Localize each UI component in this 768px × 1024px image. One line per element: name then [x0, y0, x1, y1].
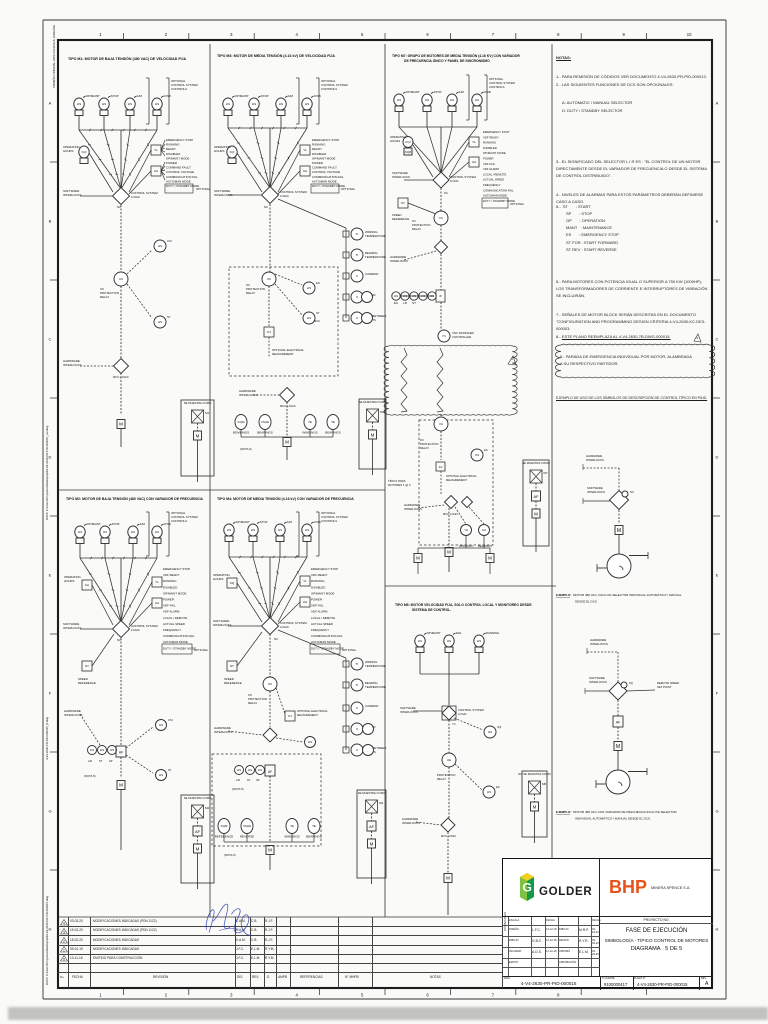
svg-text:TE: TE: [308, 420, 312, 424]
svg-text:HS: HS: [78, 530, 82, 534]
svg-text:STOP: STOP: [260, 520, 268, 524]
svg-text:A/M: A/M: [459, 90, 465, 94]
svg-text:TIPO M2: MOTOR DE BAJA TENSIÓN: TIPO M2: MOTOR DE BAJA TENSIÓN (480 VAC)…: [66, 496, 203, 501]
svg-text:EJEMPLO:: EJEMPLO:: [556, 593, 571, 597]
svg-text:TIPO M3: MOTOR DE MEDIA TENSIÓ: TIPO M3: MOTOR DE MEDIA TENSIÓN (4.16 kV…: [217, 53, 335, 58]
svg-text:AUTO/MAN MODE: AUTO/MAN MODE: [312, 179, 337, 183]
svg-text:INTERLOCKS: INTERLOCKS: [63, 626, 82, 630]
svg-text:9: 9: [623, 32, 626, 37]
svg-text:OP/MAINT MODE: OP/MAINT MODE: [311, 591, 334, 595]
svg-text:ST: ST: [168, 768, 172, 772]
svg-text:H: H: [49, 927, 52, 932]
svg-text:AUTO/MAN MODE: AUTO/MAN MODE: [163, 640, 188, 644]
svg-text:RUNNING: RUNNING: [312, 143, 326, 147]
svg-text:M2: M2: [205, 806, 209, 810]
svg-text:HS: HS: [90, 748, 94, 752]
svg-text:SP: SP: [256, 778, 260, 782]
svg-text:VDF FAIL: VDF FAIL: [163, 604, 176, 608]
svg-text:ES: ES: [316, 281, 320, 285]
svg-text:A: A: [49, 101, 52, 106]
svg-text:E: E: [716, 573, 719, 578]
svg-text:VDF FAIL: VDF FAIL: [311, 604, 324, 608]
svg-text:RUNNING: RUNNING: [311, 579, 325, 583]
svg-text:A/M: A/M: [137, 94, 143, 98]
svg-text:HS: HS: [307, 316, 311, 320]
svg-text:1: 1: [63, 949, 65, 953]
svg-text:II: II: [356, 727, 358, 731]
svg-text:10: 10: [687, 32, 692, 37]
svg-text:KA: KA: [482, 528, 486, 532]
svg-text:OPTIONAL ELECTRICAL: OPTIONAL ELECTRICAL: [297, 709, 328, 713]
svg-text:7: 7: [492, 32, 495, 37]
svg-text:POWER: POWER: [312, 161, 323, 165]
svg-text:4-V4-2630-PR-PID-000015_A.dwg: 4-V4-2630-PR-PID-000015_A.dwg: [45, 716, 49, 760]
svg-text:REFERENCE: REFERENCE: [78, 681, 96, 685]
svg-text:6: 6: [426, 32, 429, 37]
svg-text:MCC LOGIC: MCC LOGIC: [280, 404, 296, 408]
svg-text:KQM: KQM: [221, 824, 228, 828]
svg-text:RUNNING: RUNNING: [486, 631, 500, 635]
svg-text:REFERENCE: REFERENCE: [224, 681, 242, 685]
svg-text:CONTROLS: CONTROLS: [321, 519, 337, 523]
svg-text:LOCAL / REMOTE: LOCAL / REMOTE: [311, 616, 335, 620]
svg-text:RUTA: C:\Users\Proyectos\Deskt: RUTA: C:\Users\Proyectos\Desktop\pid\4-V…: [45, 425, 49, 520]
svg-text:II: II: [356, 295, 358, 299]
svg-text:AF: AF: [119, 751, 123, 755]
svg-text:II: II: [356, 274, 358, 278]
svg-text:INTERLOCKS: INTERLOCKS: [590, 642, 608, 646]
svg-text:KQ: KQ: [230, 581, 235, 585]
svg-text:DESDE EL DCS.: DESDE EL DCS.: [575, 600, 598, 604]
svg-text:HS: HS: [487, 790, 491, 794]
svg-text:POWER: POWER: [311, 598, 322, 602]
svg-text:HS: HS: [425, 98, 429, 102]
svg-text:OP/MAINT: OP/MAINT: [427, 631, 441, 635]
svg-text:HOURS: HOURS: [390, 139, 400, 143]
svg-text:TIPO M5: MOTOR VELOCIDAD FIJA: TIPO M5: MOTOR VELOCIDAD FIJA, SOLO CONT…: [395, 603, 532, 607]
svg-text:KQR: KQR: [405, 150, 412, 154]
svg-text:SE MUESTRA COMO: SE MUESTRA COMO: [184, 401, 212, 405]
svg-text:HS: HS: [248, 768, 252, 772]
svg-text:TIPO M7: GRUPO DE MOTORES DE M: TIPO M7: GRUPO DE MOTORES DE MEDIA TENSI…: [392, 53, 520, 58]
svg-text:TEMPERATURE: TEMPERATURE: [365, 234, 386, 238]
svg-text:YL: YL: [303, 579, 307, 583]
svg-text:M: M: [268, 848, 272, 853]
svg-text:FREQUENCY: FREQUENCY: [311, 628, 329, 632]
svg-text:LOGIC: LOGIC: [280, 194, 289, 198]
svg-text:UE: UE: [447, 758, 451, 762]
svg-text:HS: HS: [397, 98, 401, 102]
svg-text:AF: AF: [533, 494, 539, 499]
svg-text:OP/MAINT MODE: OP/MAINT MODE: [163, 591, 186, 595]
svg-text:RELAY: RELAY: [437, 777, 446, 781]
svg-text:EMERGENCY STOP: EMERGENCY STOP: [483, 130, 509, 134]
svg-text:AUTO/MAN MODE: AUTO/MAN MODE: [483, 194, 507, 198]
svg-text:M: M: [617, 528, 621, 534]
svg-text:HS: HS: [159, 773, 163, 777]
svg-text:7: 7: [492, 993, 495, 998]
svg-text:M: M: [370, 841, 374, 846]
svg-text:RUNNING: RUNNING: [483, 141, 496, 145]
svg-text:CONTROL VOLTAGE: CONTROL VOLTAGE: [166, 170, 194, 174]
svg-text:SE MUESTRA COMO: SE MUESTRA COMO: [358, 791, 386, 795]
svg-text:SY: SY: [230, 664, 234, 668]
svg-text:STOP: STOP: [112, 522, 120, 526]
svg-text:HS: HS: [110, 748, 114, 752]
svg-text:M1: M1: [205, 411, 209, 415]
svg-text:4: 4: [296, 32, 299, 37]
svg-text:HS: HS: [475, 98, 479, 102]
svg-text:INTERLOCKS: INTERLOCKS: [586, 458, 604, 462]
svg-text:M: M: [534, 511, 538, 516]
svg-text:II: II: [356, 748, 358, 752]
svg-text:L/R: L/R: [88, 759, 92, 763]
svg-text:OPTIONAL: OPTIONAL: [342, 648, 357, 652]
svg-text:TAMAÑO ORIGINAL: ANSI D ESCAL: TAMAÑO ORIGINAL: ANSI D ESCALA: NINGUNA: [51, 25, 56, 88]
svg-text:A/M: A/M: [140, 522, 146, 526]
svg-text:OP/MAINT: OP/MAINT: [235, 94, 249, 98]
svg-text:ST: ST: [247, 778, 251, 782]
svg-text:HS: HS: [488, 730, 492, 734]
svg-text:KJ: KJ: [439, 465, 443, 469]
svg-text:2: 2: [165, 993, 168, 998]
svg-text:VDF ALARM: VDF ALARM: [163, 610, 180, 614]
svg-text:HOURS: HOURS: [213, 577, 224, 581]
svg-text:M5: M5: [542, 782, 546, 786]
svg-text:MEASUREMENT: MEASUREMENT: [297, 713, 318, 717]
svg-text:H: H: [716, 927, 719, 932]
svg-text:MCC LOGIC: MCC LOGIC: [441, 834, 456, 838]
svg-text:AF: AF: [369, 824, 375, 829]
svg-text:2: 2: [165, 32, 168, 37]
svg-text:LOCAL / REMOTE: LOCAL / REMOTE: [483, 172, 506, 176]
svg-text:TE: TE: [290, 824, 294, 828]
svg-text:RELAY: RELAY: [100, 295, 109, 299]
svg-text:CONTROLS: CONTROLS: [489, 85, 505, 89]
svg-text:DISABLED: DISABLED: [166, 152, 180, 156]
svg-text:LR: LR: [403, 301, 408, 305]
svg-text:KQI: KQI: [230, 150, 235, 154]
svg-text:5: 5: [361, 993, 364, 998]
svg-text:UA: UA: [303, 169, 307, 173]
svg-text:UA: UA: [303, 600, 307, 604]
svg-text:SE MUESTRA COMO: SE MUESTRA COMO: [359, 400, 387, 404]
svg-text:CONTROLS: CONTROLS: [171, 87, 187, 91]
svg-text:HS: HS: [131, 530, 135, 534]
svg-text:C: C: [49, 337, 52, 342]
svg-text:OP/MAINT: OP/MAINT: [86, 94, 100, 98]
svg-text:A/M: A/M: [287, 520, 293, 524]
svg-text:KA: KA: [85, 583, 89, 587]
svg-text:M: M: [119, 783, 123, 788]
svg-text:NC: NC: [264, 205, 268, 209]
svg-text:M: M: [616, 744, 620, 750]
svg-text:MOTOR 480 VAC, INCLUYE SELECTO: MOTOR 480 VAC, INCLUYE SELECTOR INDIVIDU…: [573, 593, 682, 597]
svg-text:L/R: L/R: [236, 778, 240, 782]
svg-text:DUTY / STANDBY MODE: DUTY / STANDBY MODE: [163, 646, 196, 650]
svg-text:DISABLED: DISABLED: [312, 152, 326, 156]
svg-text:TE: TE: [312, 824, 316, 828]
svg-text:BEARINGS: BEARINGS: [478, 544, 492, 548]
svg-text:CONTROLLER: CONTROLLER: [452, 335, 471, 339]
svg-text:RELAY: RELAY: [248, 701, 257, 705]
svg-text:HS: HS: [128, 102, 132, 106]
svg-text:TEMPERATURE: TEMPERATURE: [365, 255, 386, 259]
svg-text:KJ: KJ: [288, 714, 292, 718]
svg-text:OPTIONAL: OPTIONAL: [196, 187, 211, 191]
svg-text:KQM: KQM: [238, 420, 245, 424]
svg-text:D: D: [49, 455, 52, 460]
svg-text:HS: HS: [447, 639, 451, 643]
svg-text:VSHH: VSHH: [243, 824, 251, 828]
svg-text:DUTY / STANDBY MODE: DUTY / STANDBY MODE: [311, 646, 344, 650]
svg-text:VDF ALARM: VDF ALARM: [483, 167, 500, 171]
svg-text:OP/MAINT: OP/MAINT: [406, 90, 420, 94]
svg-text:POWER: POWER: [483, 157, 494, 161]
svg-text:HOURS: HOURS: [63, 149, 74, 153]
svg-text:M: M: [119, 422, 123, 427]
svg-text:HS: HS: [251, 528, 255, 532]
svg-text:F: F: [49, 691, 52, 696]
svg-text:COMMUNICATION FAIL: COMMUNICATION FAIL: [311, 634, 343, 638]
svg-text:COMMUNICATION FAIL: COMMUNICATION FAIL: [166, 175, 198, 179]
svg-text:HS: HS: [305, 102, 309, 106]
svg-text:M: M: [196, 846, 200, 851]
svg-text:NC: NC: [117, 205, 121, 209]
svg-text:INTERLOCKS: INTERLOCKS: [589, 680, 607, 684]
svg-text:HS: HS: [252, 102, 256, 106]
svg-text:CSI: CSI: [167, 239, 172, 243]
svg-text:CURRENT: CURRENT: [365, 704, 379, 708]
svg-text:TE: TE: [331, 420, 335, 424]
svg-text:GOLDER: GOLDER: [539, 886, 592, 898]
svg-text:FREQUENCY: FREQUENCY: [483, 183, 501, 187]
svg-text:M: M: [447, 550, 451, 555]
svg-text:STOP: STOP: [434, 90, 442, 94]
svg-text:HS: HS: [237, 768, 241, 772]
svg-text:LOGIC: LOGIC: [280, 625, 289, 629]
svg-text:O/SB: O/SB: [164, 522, 171, 526]
svg-text:ACTUAL SPEED: ACTUAL SPEED: [483, 178, 504, 182]
svg-text:O/SB: O/SB: [164, 94, 171, 98]
svg-text:HS: HS: [450, 98, 454, 102]
svg-text:KQI: KQI: [82, 150, 87, 154]
svg-text:CSI: CSI: [168, 718, 173, 722]
svg-text:HS: HS: [305, 528, 309, 532]
svg-text:/F: /F: [439, 294, 442, 298]
svg-text:MCC: MCC: [314, 319, 320, 323]
svg-text:OP/MAINT: OP/MAINT: [236, 520, 250, 524]
svg-text:M7: M7: [544, 471, 548, 475]
svg-text:OP/MAINT: OP/MAINT: [87, 522, 101, 526]
svg-text:HS: HS: [159, 723, 163, 727]
svg-text:HS: HS: [278, 528, 282, 532]
svg-text:KQI: KQI: [405, 140, 410, 144]
svg-text:DISABLED: DISABLED: [311, 585, 325, 589]
svg-text:D: D: [716, 455, 719, 460]
svg-text:HS: HS: [394, 294, 398, 298]
svg-text:G: G: [523, 881, 532, 895]
svg-text:READY: READY: [312, 147, 322, 151]
svg-text:DE FRECUENCIA ÚNICO Y PANEL DE: DE FRECUENCIA ÚNICO Y PANEL DE SINCRONIS…: [404, 58, 490, 63]
svg-text:RELAY: RELAY: [420, 446, 429, 450]
svg-text:HS: HS: [103, 530, 107, 534]
svg-text:KQ: KQ: [629, 681, 633, 685]
svg-text:COMMAND FAULT: COMMAND FAULT: [166, 166, 191, 170]
svg-text:HS: HS: [100, 748, 104, 752]
svg-text:INDIVIDUAL AUTOMÁTICO / MANUAL: INDIVIDUAL AUTOMÁTICO / MANUAL DESDE EL …: [575, 817, 651, 821]
svg-text:SP: SP: [109, 759, 113, 763]
svg-text:HS: HS: [477, 639, 481, 643]
svg-text:B: B: [716, 219, 719, 224]
svg-text:YL: YL: [155, 580, 159, 584]
svg-text:YL: YL: [154, 148, 158, 152]
svg-text:3: 3: [63, 930, 65, 934]
svg-text:EMERGENCY STOP: EMERGENCY STOP: [163, 567, 190, 571]
svg-text:CONTROLS: CONTROLS: [321, 87, 337, 91]
svg-text:JQI: JQI: [497, 725, 501, 729]
svg-text:RUNNING: RUNNING: [166, 143, 180, 147]
svg-text:C: C: [716, 337, 719, 342]
svg-text:INTERLOCKS: INTERLOCKS: [587, 490, 605, 494]
svg-text:M: M: [285, 440, 289, 445]
svg-text:HOURS: HOURS: [214, 149, 225, 153]
svg-text:HS: HS: [158, 244, 162, 248]
svg-text:STOP: STOP: [261, 94, 269, 98]
svg-text:LOCAL / REMOTE: LOCAL / REMOTE: [163, 616, 187, 620]
svg-text:YL: YL: [303, 148, 307, 152]
svg-text:NC: NC: [630, 490, 634, 494]
svg-text:YA: YA: [464, 528, 468, 532]
svg-text:NC: NC: [117, 638, 121, 642]
svg-text:CONTROLS: CONTROLS: [171, 519, 187, 523]
svg-text:4: 4: [63, 921, 65, 925]
svg-text:8: 8: [557, 993, 560, 998]
svg-text:INTERLOCKS: INTERLOCKS: [64, 713, 83, 717]
svg-text:HS: HS: [418, 639, 422, 643]
svg-text:(NOTA 6): (NOTA 6): [240, 447, 252, 451]
svg-text:MEASUREMENT: MEASUREMENT: [446, 478, 467, 482]
svg-text:INTERLOCKS: INTERLOCKS: [392, 175, 410, 179]
svg-text:HS: HS: [258, 768, 262, 772]
svg-text:MOTORES 1 @ 3: MOTORES 1 @ 3: [388, 483, 411, 487]
svg-text:5: 5: [361, 32, 364, 37]
svg-text:COMMAND FAULT: COMMAND FAULT: [312, 166, 337, 170]
svg-text:1: 1: [99, 993, 102, 998]
svg-text:NO SE MUESTRA COMO: NO SE MUESTRA COMO: [518, 772, 551, 776]
svg-text:G: G: [48, 809, 51, 814]
svg-text:M: M: [196, 433, 200, 438]
svg-text:SE MUESTRA COMO: SE MUESTRA COMO: [522, 461, 550, 465]
svg-text:VDF READY: VDF READY: [483, 135, 499, 139]
svg-text:EMERGENCY STOP: EMERGENCY STOP: [312, 138, 339, 142]
svg-text:KS: KS: [475, 453, 479, 457]
svg-text:COMMUNICATION FAIL: COMMUNICATION FAIL: [163, 634, 195, 638]
svg-text:OPTIONAL ELECTRICAL: OPTIONAL ELECTRICAL: [446, 474, 477, 478]
svg-text:(NOTA 5): (NOTA 5): [84, 774, 96, 778]
svg-text:POWER: POWER: [166, 161, 177, 165]
svg-text:OP/MAINT MODE: OP/MAINT MODE: [483, 151, 506, 155]
svg-text:A: A: [716, 101, 719, 106]
svg-text:VSHH: VSHH: [261, 420, 269, 424]
svg-text:F: F: [716, 691, 719, 696]
svg-text:RUTA: C:\Users\Proyectos\Deskt: RUTA: C:\Users\Proyectos\Desktop\pid\4-V…: [45, 896, 49, 985]
svg-text:AF: AF: [616, 721, 621, 725]
svg-text:TIPO M1: MOTOR DE BAJA TENSIÓ: TIPO M1: MOTOR DE BAJA TENSIÓN (480 VAC)…: [68, 56, 187, 61]
svg-text:CURRENT: CURRENT: [365, 272, 379, 276]
svg-text:HS: HS: [226, 102, 230, 106]
svg-text:SISTEMA DE CONTROL.: SISTEMA DE CONTROL.: [412, 608, 451, 612]
svg-text:LOGIC: LOGIC: [131, 195, 140, 199]
svg-text:ST: ST: [167, 315, 171, 319]
svg-text:8: 8: [557, 32, 560, 37]
svg-text:RUNNING: RUNNING: [163, 579, 177, 583]
svg-text:NC: NC: [444, 191, 448, 195]
svg-text:II: II: [356, 706, 358, 710]
svg-text:EMERGENCY STOP: EMERGENCY STOP: [166, 138, 193, 142]
svg-text:EJEMPLO:: EJEMPLO:: [556, 810, 571, 814]
svg-text:HS: HS: [158, 320, 162, 324]
svg-text:SY: SY: [401, 201, 405, 205]
svg-text:HS: HS: [227, 528, 231, 532]
svg-text:M: M: [371, 432, 375, 437]
svg-text:RELAY: RELAY: [246, 291, 255, 295]
svg-text:SY: SY: [85, 664, 89, 668]
svg-text:TI: TI: [356, 232, 359, 236]
svg-text:STOP: STOP: [111, 94, 119, 98]
svg-text:ACTUAL SPEED: ACTUAL SPEED: [311, 622, 333, 626]
svg-text:OP/MAINT MODE: OP/MAINT MODE: [166, 156, 189, 160]
svg-text:COMMUNICATION FAIL: COMMUNICATION FAIL: [312, 175, 344, 179]
svg-text:OPTIONAL: OPTIONAL: [341, 187, 356, 191]
svg-text:KJ: KJ: [267, 330, 271, 334]
svg-text:ES: ES: [394, 301, 398, 305]
svg-text:ES: ES: [484, 448, 488, 452]
svg-text:FAIL: FAIL: [456, 631, 462, 635]
svg-text:TI: TI: [356, 253, 359, 257]
svg-text:OP/MAINT MODE: OP/MAINT MODE: [312, 156, 335, 160]
svg-text:M: M: [446, 876, 450, 881]
svg-text:ACTUAL SPEED: ACTUAL SPEED: [163, 622, 185, 626]
svg-text:(NOTA 5): (NOTA 5): [232, 787, 244, 791]
svg-text:INTERLOCKS: INTERLOCKS: [63, 363, 82, 367]
svg-text:HS: HS: [155, 530, 159, 534]
svg-text:MEASUREMENT: MEASUREMENT: [272, 352, 294, 356]
svg-text:LOGIC: LOGIC: [131, 628, 140, 632]
svg-text:ST: ST: [99, 759, 103, 763]
svg-text:INTERLOCKS: INTERLOCKS: [213, 623, 232, 627]
svg-text:AF: AF: [195, 829, 201, 834]
svg-text:ST: ST: [412, 301, 416, 305]
svg-text:POWER: POWER: [163, 598, 174, 602]
svg-text:UA: UA: [154, 169, 158, 173]
svg-text:VDF READY: VDF READY: [163, 573, 180, 577]
svg-text:3: 3: [230, 32, 233, 37]
svg-text:HS: HS: [155, 102, 159, 106]
svg-text:AUTO/MAN MODE: AUTO/MAN MODE: [166, 179, 191, 183]
svg-text:INTERLOCKS: INTERLOCKS: [214, 730, 233, 734]
svg-text:TI: TI: [356, 662, 359, 666]
svg-text:A/M: A/M: [288, 94, 294, 98]
svg-text:HS: HS: [308, 740, 312, 744]
svg-text:ES: ES: [496, 785, 500, 789]
svg-text:HS: HS: [77, 102, 81, 106]
svg-text:VDF READY: VDF READY: [311, 573, 328, 577]
svg-text:DISABLED: DISABLED: [163, 585, 177, 589]
svg-text:(NOTA 6): (NOTA 6): [224, 853, 236, 857]
svg-text:SET POINT: SET POINT: [657, 685, 672, 689]
svg-text:DUTY / STANDBY MODE: DUTY / STANDBY MODE: [166, 184, 199, 188]
